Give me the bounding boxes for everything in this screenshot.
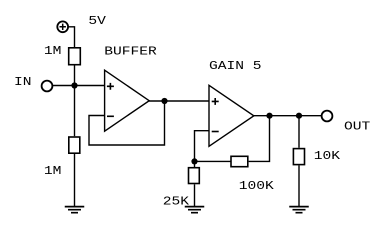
svg-text:10K: 10K bbox=[314, 150, 341, 164]
svg-text:1M: 1M bbox=[44, 165, 62, 179]
svg-text:5V: 5V bbox=[88, 15, 106, 29]
svg-text:IN: IN bbox=[14, 76, 32, 90]
svg-text:1M: 1M bbox=[44, 45, 62, 59]
svg-text:100K: 100K bbox=[239, 180, 275, 194]
svg-text:GAIN 5: GAIN 5 bbox=[209, 60, 262, 74]
svg-text:BUFFER: BUFFER bbox=[104, 45, 157, 59]
svg-text:OUT: OUT bbox=[344, 120, 370, 134]
svg-text:25K: 25K bbox=[163, 196, 190, 210]
